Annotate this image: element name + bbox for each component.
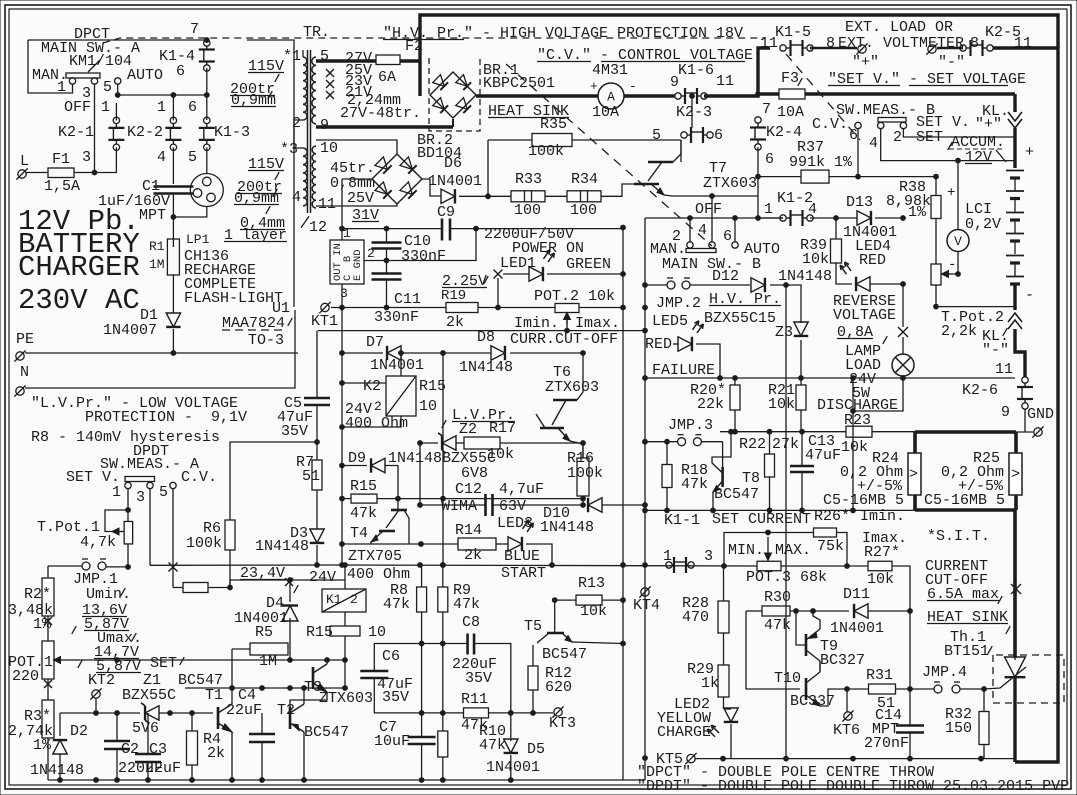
svg-text:C2: C2 [121, 741, 139, 758]
resistor R18 [662, 465, 672, 488]
svg-text:A: A [607, 90, 615, 105]
svg-text:150: 150 [945, 720, 972, 737]
resistor R15b [351, 494, 377, 503]
capacitor C7 [408, 736, 436, 739]
diode D9 [371, 458, 385, 472]
svg-text:47k: 47k [383, 596, 410, 613]
wire [868, 610, 910, 612]
wire row218 [645, 217, 783, 219]
diode D6 [441, 189, 455, 203]
wire pin3 drop [149, 489, 151, 566]
wire pin2 set [903, 129, 1015, 138]
wire [386, 249, 388, 273]
svg-text:JMP.2: JMP.2 [656, 295, 701, 312]
capacitor C14 [896, 724, 924, 727]
rail x623 [622, 228, 624, 781]
switch SW.MEAS-A [125, 477, 155, 482]
node [756, 174, 761, 179]
resistor R13 [576, 595, 602, 605]
diode D3 [310, 529, 324, 543]
svg-text:JMP.4: JMP.4 [922, 664, 967, 681]
svg-text:12: 12 [309, 219, 327, 236]
wire [734, 410, 736, 432]
svg-text:22k: 22k [697, 396, 724, 413]
node [441, 351, 446, 356]
wire [173, 587, 183, 589]
resistor R7 [312, 460, 322, 490]
wiper row 330 [318, 330, 645, 332]
jumper JMP.2 [667, 281, 675, 289]
svg-text:R14: R14 [455, 522, 482, 539]
wire [983, 689, 985, 711]
wire R23 row [720, 431, 846, 433]
wire lamp [902, 284, 904, 327]
svg-text:4M31: 4M31 [592, 62, 628, 79]
resistor R31 [869, 684, 896, 694]
svg-text:270nF: 270nF [864, 735, 909, 752]
svg-text:220: 220 [12, 668, 39, 685]
pot POT.2 [555, 304, 579, 313]
wire [172, 95, 174, 120]
svg-text:2,2k: 2,2k [941, 323, 977, 340]
wire wiper to SET [47, 659, 49, 661]
svg-text:4: 4 [698, 222, 707, 239]
wire [442, 612, 444, 731]
zener Z2 [442, 436, 456, 450]
svg-text:KBPC2501: KBPC2501 [483, 75, 555, 92]
node [621, 272, 626, 277]
svg-text:MIN.: MIN. [728, 542, 764, 559]
svg-text:LP1: LP1 [186, 232, 210, 247]
relay contact K1-6 [675, 93, 681, 99]
svg-text:START: START [501, 565, 546, 582]
svg-text:4: 4 [157, 149, 166, 166]
svg-text:CHARGE: CHARGE [657, 724, 711, 741]
LED4 diode [856, 277, 870, 291]
resistor R21 [796, 385, 806, 410]
svg-text:7: 7 [762, 101, 771, 118]
svg-text:*1: *1 [283, 48, 301, 65]
svg-text:-: - [1025, 287, 1034, 304]
wire thick to F3 [704, 94, 779, 96]
wire T2 collector [303, 688, 305, 704]
relay contact K2-3 [681, 132, 687, 138]
wire T6 emitter [570, 441, 583, 458]
resistor R25 [1009, 453, 1022, 495]
jumper JMP.1 [82, 562, 90, 570]
transistor T4 darlington [391, 509, 407, 512]
svg-text:"+": "+" [975, 116, 1002, 133]
diode D12 [751, 278, 765, 292]
wire [421, 565, 423, 587]
svg-text:BC327: BC327 [820, 652, 865, 669]
wire [173, 207, 206, 218]
svg-text:Z2: Z2 [459, 421, 477, 438]
zener Z3 [794, 322, 808, 336]
svg-text:R11: R11 [461, 691, 488, 708]
diode D8 [491, 346, 505, 360]
svg-text:D7: D7 [366, 334, 384, 351]
wire [206, 40, 208, 43]
svg-text:"-": "-" [938, 54, 965, 71]
wire row196 end [711, 196, 713, 242]
svg-text:6: 6 [714, 127, 723, 144]
wire [758, 217, 783, 219]
switch SW.MEAS-B [878, 118, 906, 123]
relay coil K1 [322, 589, 366, 612]
wire [421, 744, 423, 780]
svg-text:OFF: OFF [695, 201, 722, 218]
svg-text:1: 1 [343, 226, 351, 241]
wire [421, 612, 423, 737]
svg-text:1: 1 [663, 548, 672, 565]
svg-text:2k: 2k [464, 547, 482, 564]
wire PE [25, 352, 298, 354]
svg-text:DISCHARGE: DISCHARGE [817, 397, 898, 414]
node [171, 93, 176, 98]
svg-text:F3: F3 [781, 70, 799, 87]
node [756, 92, 761, 97]
relay contact K2-4 [755, 117, 761, 123]
svg-text:470: 470 [682, 609, 709, 626]
svg-text:LED5: LED5 [652, 313, 688, 330]
svg-text:K2: K2 [363, 378, 381, 395]
svg-text:T10: T10 [774, 670, 801, 687]
svg-text:"-": "-" [982, 342, 1009, 359]
battery cells [1006, 170, 1024, 172]
svg-text:24V: 24V [309, 569, 336, 586]
svg-text:400 Ohm: 400 Ohm [347, 566, 410, 583]
svg-text:1N4001: 1N4001 [428, 173, 482, 190]
wire [746, 611, 800, 689]
svg-text:MAX.: MAX. [775, 542, 811, 559]
terminal KT6 [844, 712, 852, 720]
wire [836, 263, 852, 284]
svg-text:R27*: R27* [864, 544, 900, 561]
svg-text:10A: 10A [777, 104, 804, 121]
resistor R20 [730, 385, 740, 410]
svg-text:C5-16MB 5: C5-16MB 5 [823, 492, 904, 509]
svg-text:N: N [20, 364, 29, 381]
svg-text:1N4001: 1N4001 [830, 620, 884, 637]
svg-text:6: 6 [188, 99, 197, 116]
thick shunt left [913, 432, 917, 510]
wire pin11 to bridge [316, 204, 397, 206]
wire [342, 465, 367, 467]
wire [172, 275, 174, 313]
node MPT [171, 215, 176, 220]
svg-text:47k: 47k [479, 737, 506, 754]
wire [723, 566, 725, 601]
svg-text:5: 5 [103, 79, 112, 96]
svg-text:22uF: 22uF [145, 760, 181, 777]
resistor R11 [464, 708, 489, 718]
C8 row [374, 643, 467, 645]
vertical rail x786 [785, 285, 787, 758]
svg-text:1: 1 [57, 79, 66, 96]
resistor R6 [225, 520, 235, 550]
wire [172, 194, 174, 248]
capacitor C8 [466, 634, 469, 655]
lamp [892, 354, 914, 376]
X [1011, 584, 1021, 594]
wire [680, 140, 682, 162]
svg-text:Imin.: Imin. [514, 315, 559, 332]
wire [1024, 409, 1026, 432]
resistor R15c [330, 626, 360, 636]
transistor T7 darlington [648, 161, 673, 164]
svg-text:KM1/104: KM1/104 [69, 53, 132, 70]
wire [601, 184, 634, 196]
svg-text:2k: 2k [207, 745, 225, 762]
resistor R26 [814, 528, 837, 537]
svg-text:+: + [590, 79, 598, 94]
wire T4 emitter down [370, 542, 372, 544]
svg-text:5: 5 [188, 149, 197, 166]
svg-text:10uF: 10uF [374, 733, 410, 750]
svg-text:R15: R15 [350, 478, 377, 495]
svg-text:D9: D9 [348, 450, 366, 467]
rail x342 [341, 308, 343, 566]
wire D7 row left end [644, 307, 646, 309]
wire drop6 [734, 218, 736, 242]
svg-text:R13: R13 [578, 575, 605, 592]
wire [116, 713, 118, 741]
wire [230, 442, 317, 520]
wire [872, 431, 915, 433]
svg-text:3: 3 [340, 286, 348, 301]
resistor R36 [183, 583, 208, 593]
wire T7 collector [673, 140, 681, 162]
svg-text:63V: 63V [499, 498, 526, 515]
wire pin10 to bridge [316, 140, 397, 154]
wire [127, 489, 129, 522]
wire row378 [645, 377, 1015, 379]
wire [937, 47, 963, 50]
trimpot T.Pot.2 [931, 264, 941, 285]
wire [770, 285, 801, 323]
svg-text:T5: T5 [524, 618, 542, 635]
wire [229, 550, 231, 588]
svg-text:ZTX603: ZTX603 [703, 175, 757, 192]
svg-text:400 Ohm: 400 Ohm [345, 415, 408, 432]
bridge BR.1 [430, 72, 476, 118]
svg-text:330nF: 330nF [374, 309, 419, 326]
svg-text:1N4001: 1N4001 [370, 357, 424, 374]
terminal KT4 [641, 588, 649, 596]
capacitor C1 [153, 185, 193, 188]
svg-text:330nF: 330nF [401, 248, 446, 265]
svg-text:F1: F1 [52, 151, 70, 168]
svg-text:11: 11 [716, 73, 734, 90]
transistor T2 [289, 707, 292, 729]
voltmeter [947, 230, 969, 252]
svg-text:1N4148: 1N4148 [540, 519, 594, 536]
terminal KT1 [321, 303, 329, 311]
resistor R33 [511, 191, 545, 202]
wire [385, 466, 398, 499]
svg-text:100k: 100k [186, 535, 222, 552]
capacitor C12 [484, 494, 487, 516]
wire bottom rail left [48, 779, 645, 781]
svg-text:47k: 47k [681, 476, 708, 493]
wire [316, 545, 318, 565]
row565 left [150, 564, 342, 566]
wire thick HV frame [420, 15, 1058, 96]
svg-text:KT6: KT6 [833, 722, 860, 739]
wire [496, 543, 508, 545]
capacitor C13 [790, 465, 814, 468]
transistor T1 [217, 707, 220, 729]
svg-text:K1: K1 [326, 592, 342, 607]
svg-text:R8 - 140mV hysteresis: R8 - 140mV hysteresis [31, 429, 220, 446]
svg-text:>: > [1011, 466, 1020, 483]
wire [316, 405, 318, 460]
svg-text:22uF: 22uF [226, 702, 262, 719]
regulator U1 box [330, 240, 364, 284]
dashed divider [786, 54, 860, 140]
svg-text:D11: D11 [843, 586, 870, 603]
svg-text:ZTX705: ZTX705 [348, 548, 402, 565]
relay coil K2 [386, 376, 416, 416]
svg-text:T2: T2 [277, 702, 295, 719]
node [440, 563, 445, 568]
LED1 diode [529, 267, 543, 281]
svg-text:Z3: Z3 [775, 324, 793, 341]
svg-text:6: 6 [849, 127, 858, 144]
resistor R19 [446, 303, 478, 313]
diode D13 [857, 211, 871, 225]
svg-text:BLUE: BLUE [504, 548, 540, 565]
svg-text:PROTECTION - 9,1V: PROTECTION - 9,1V [85, 409, 247, 426]
wire [316, 490, 318, 529]
svg-text:RED: RED [859, 252, 886, 269]
resistor R35 [532, 134, 572, 147]
resistor R27 [868, 561, 892, 571]
wire [1013, 284, 1016, 310]
svg-text:R17: R17 [489, 420, 516, 437]
wire T1 down [231, 732, 233, 780]
wire [724, 708, 732, 710]
jumper JMP.4 [934, 685, 942, 693]
transistor T3 [312, 667, 315, 689]
svg-text:K2-2: K2-2 [127, 124, 163, 141]
wire [723, 633, 725, 665]
wire [810, 217, 857, 219]
wire [691, 96, 693, 128]
wire T9 collector [819, 661, 821, 671]
svg-text:1M: 1M [149, 257, 165, 272]
X [494, 270, 503, 279]
svg-text:R15: R15 [419, 378, 446, 395]
svg-text:T1: T1 [205, 687, 223, 704]
wire thick F2 to bridge [400, 59, 420, 62]
resistor R29 [718, 665, 729, 697]
mains plug [190, 174, 223, 207]
wire [386, 280, 388, 308]
svg-text:R15: R15 [306, 624, 333, 641]
capacitor C3 [135, 753, 161, 756]
svg-text:0,2V: 0,2V [965, 216, 1001, 233]
svg-text:POT.3 68k: POT.3 68k [746, 569, 827, 586]
wire thick bridge out [476, 94, 598, 97]
terminal L [18, 170, 26, 178]
wire flashlight box [247, 40, 294, 307]
wiper return [566, 318, 568, 331]
svg-text:10k: 10k [580, 603, 607, 620]
svg-text:BZX55C: BZX55C [122, 687, 176, 704]
svg-text:R34: R34 [571, 171, 598, 188]
wire K1 bottom [344, 612, 346, 626]
svg-text:AUTO: AUTO [127, 67, 163, 84]
wire [555, 599, 576, 601]
wire [74, 147, 116, 172]
wire MAN pin3 down [94, 84, 96, 173]
svg-text:47k: 47k [764, 617, 791, 634]
mid rail y688 [185, 687, 345, 689]
svg-text:10: 10 [419, 398, 437, 415]
diode D10 [588, 498, 602, 512]
terminal ext - [928, 45, 936, 53]
wire pin2 jog [302, 50, 304, 57]
pot POT.1 [42, 641, 54, 679]
resistor R17 [464, 437, 500, 449]
terminal KT5 [687, 754, 695, 762]
svg-text:OFF: OFF [64, 99, 91, 116]
svg-text:D5: D5 [527, 741, 545, 758]
wire U1 top [341, 179, 343, 240]
wire [342, 228, 442, 230]
tap X 25V [326, 69, 334, 77]
wire T2 emitter [303, 732, 305, 780]
wire [191, 713, 193, 731]
wire [240, 579, 345, 581]
ammeter 4M31 [598, 83, 624, 109]
svg-text:T8: T8 [742, 470, 760, 487]
svg-text:+: + [947, 185, 955, 201]
svg-text:EXT. VOLTMETER: EXT. VOLTMETER [838, 35, 964, 52]
terminal N [16, 387, 24, 395]
wire primary jog [294, 120, 303, 148]
resistor R3 [42, 700, 54, 738]
secondary winding upper [312, 57, 316, 124]
svg-text:R33: R33 [515, 171, 542, 188]
resistor R24 [908, 453, 921, 495]
svg-text:991k 1%: 991k 1% [789, 154, 853, 171]
svg-text:CHARGER: CHARGER [18, 251, 140, 284]
svg-text:1N4148: 1N4148 [778, 268, 832, 285]
wire [602, 504, 645, 506]
svg-text:3: 3 [704, 548, 713, 565]
rail y758 [695, 758, 1015, 760]
resistor R2 [42, 578, 54, 616]
resistor R39 [831, 239, 842, 263]
svg-text:9: 9 [1001, 404, 1010, 421]
thick shunt top [915, 430, 1016, 434]
fuse F3 [779, 89, 805, 99]
wire [206, 68, 208, 120]
wire row510 [645, 509, 915, 511]
svg-text:JMP.3: JMP.3 [668, 417, 713, 434]
wire [96, 712, 140, 714]
svg-text:K1-5: K1-5 [775, 24, 811, 41]
wire [690, 284, 750, 286]
svg-text:KT4: KT4 [633, 597, 660, 614]
svg-text:1N4148: 1N4148 [388, 450, 442, 467]
svg-text:"DPDT" - DOUBLE POLE DOUBLE TH: "DPDT" - DOUBLE POLE DOUBLE THROW 25.03.… [637, 778, 1069, 795]
relay contact K1-1 [666, 562, 672, 568]
svg-text:SET: SET [916, 129, 943, 146]
